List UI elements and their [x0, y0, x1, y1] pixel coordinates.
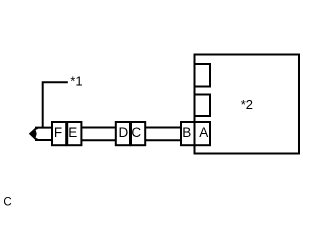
connector F — [52, 122, 66, 145]
connector port P1 on ECU — [195, 64, 211, 87]
svg-text:E: E — [68, 125, 77, 140]
wire leader line to *1 — [43, 82, 68, 127]
svg-text:D: D — [119, 125, 129, 140]
connector C — [131, 122, 145, 145]
wire harness C to B — [145, 128, 181, 141]
connector port P2 on ECU — [195, 95, 211, 117]
connector E — [67, 122, 81, 145]
svg-text:B: B — [182, 125, 191, 140]
connector A — [195, 122, 211, 145]
wire harness E to D — [81, 128, 115, 141]
svg-text:*2: *2 — [241, 97, 253, 112]
connector plug W1 (frayed-wire arrow end) — [29, 127, 52, 141]
svg-text:A: A — [199, 125, 208, 140]
svg-text:*1: *1 — [70, 74, 82, 89]
svg-text:C: C — [131, 125, 141, 140]
svg-text:C: C — [3, 197, 11, 209]
ECU box *2 — [195, 55, 300, 154]
connector B — [181, 122, 195, 145]
connector D — [116, 122, 130, 145]
svg-text:F: F — [54, 125, 62, 140]
